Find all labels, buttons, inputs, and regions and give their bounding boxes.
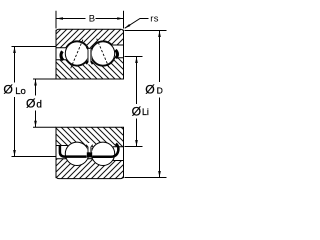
cage bottom left (solid black): [60, 145, 87, 156]
OLo arrow top: [13, 47, 16, 54]
OLo extension bottom: [12, 156, 57, 158]
inner ring top: [56, 58, 124, 79]
inner ring bottom: [56, 127, 124, 154]
cage left end top: [61, 51, 63, 60]
B arrow left: [56, 17, 63, 20]
cage pocket mask between balls bottom: [87, 143, 91, 152]
svg-text:Lo: Lo: [15, 86, 26, 97]
OD extension top: [125, 30, 167, 32]
OLi arrow bottom: [135, 140, 138, 147]
ball row 2 top: [91, 42, 114, 65]
ball row 1 top: [65, 42, 88, 65]
svg-text:d: d: [36, 99, 42, 110]
OD dimension line: [159, 31, 161, 178]
B extension line right: [123, 11, 125, 29]
OLo extension top: [12, 46, 57, 48]
OD extension bottom: [125, 177, 167, 179]
OLo arrow bottom: [13, 150, 16, 157]
OLo dimension line: [14, 47, 16, 157]
Od extension top: [33, 78, 56, 80]
B dimension line: [56, 18, 124, 20]
svg-text:rs: rs: [150, 14, 159, 25]
right face line bottom: [123, 127, 125, 178]
svg-text:Li: Li: [142, 107, 149, 117]
left face line top: [55, 30, 57, 79]
svg-text:D: D: [157, 86, 163, 96]
svg-text:Ø: Ø: [132, 104, 142, 118]
contact angle dashed line ball 1: [71, 39, 84, 69]
Od dimension line: [35, 79, 37, 127]
OD arrow top: [158, 31, 161, 38]
Od arrow bottom: [34, 121, 37, 128]
ball row 2 bottom: [91, 142, 114, 165]
B extension line left: [55, 11, 57, 29]
outer ring top: [56, 29, 124, 49]
cage bottom center rivet: [87, 152, 92, 157]
svg-text:Ø: Ø: [145, 83, 155, 97]
left face line bottom: [55, 127, 57, 178]
Od extension bottom: [33, 126, 56, 128]
OLi extension bottom: [125, 146, 143, 148]
OLi extension top: [125, 56, 143, 58]
OLi dimension line: [136, 57, 138, 147]
ball row 1 bottom: [65, 142, 88, 165]
cage pocket mask between balls top: [87, 49, 91, 65]
cage feet top: [86, 61, 92, 64]
right face line top: [123, 30, 125, 79]
cage web between balls top: [86, 47, 93, 61]
svg-text:B: B: [89, 13, 95, 24]
cage bottom web lines: [86, 145, 93, 153]
Od arrow top: [34, 79, 37, 86]
cage right end top: [115, 50, 117, 58]
OD arrow bottom: [158, 171, 161, 178]
contact angle dashed line ball 2: [97, 39, 110, 69]
svg-text:Ø: Ø: [26, 96, 36, 110]
OLi arrow top: [135, 57, 138, 64]
rs leader: [125, 19, 149, 29]
outer ring bottom: [56, 151, 124, 178]
cage bottom right (solid black): [92, 144, 118, 157]
rs leader arrowhead: [124, 24, 130, 28]
svg-text:Ø: Ø: [3, 82, 13, 96]
B arrow right: [117, 17, 123, 20]
